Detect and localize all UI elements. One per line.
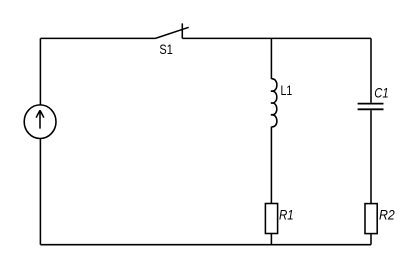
wire bottom horizontal	[40, 244, 371, 246]
wire top-left horizontal	[40, 37, 155, 39]
wire right branch lower	[370, 110, 372, 203]
svg-text:L1: L1	[281, 82, 293, 98]
wire middle branch upper	[270, 38, 272, 79]
svg-text:R2: R2	[379, 206, 395, 222]
current source I1 circle	[24, 105, 56, 139]
svg-text:S1: S1	[159, 41, 173, 57]
inductor L1	[271, 79, 277, 127]
svg-text:C1: C1	[374, 85, 388, 101]
wire below R1	[270, 234, 272, 245]
wire left vertical lower	[39, 139, 41, 245]
wire middle branch lower	[270, 127, 272, 204]
wire below R2	[370, 234, 372, 245]
switch S1 contact post	[181, 23, 183, 38]
resistor R1 body	[265, 204, 277, 234]
switch S1 blade	[155, 27, 188, 38]
current source I1 arrow	[36, 110, 44, 128]
capacitor C1 bottom plate	[358, 108, 384, 110]
resistor R2 body	[365, 204, 377, 234]
capacitor C1 top plate	[358, 103, 384, 105]
wire right branch upper	[370, 38, 372, 102]
wire left vertical upper	[39, 38, 41, 105]
wire top-right horizontal	[182, 37, 371, 39]
svg-text:R1: R1	[279, 206, 294, 222]
